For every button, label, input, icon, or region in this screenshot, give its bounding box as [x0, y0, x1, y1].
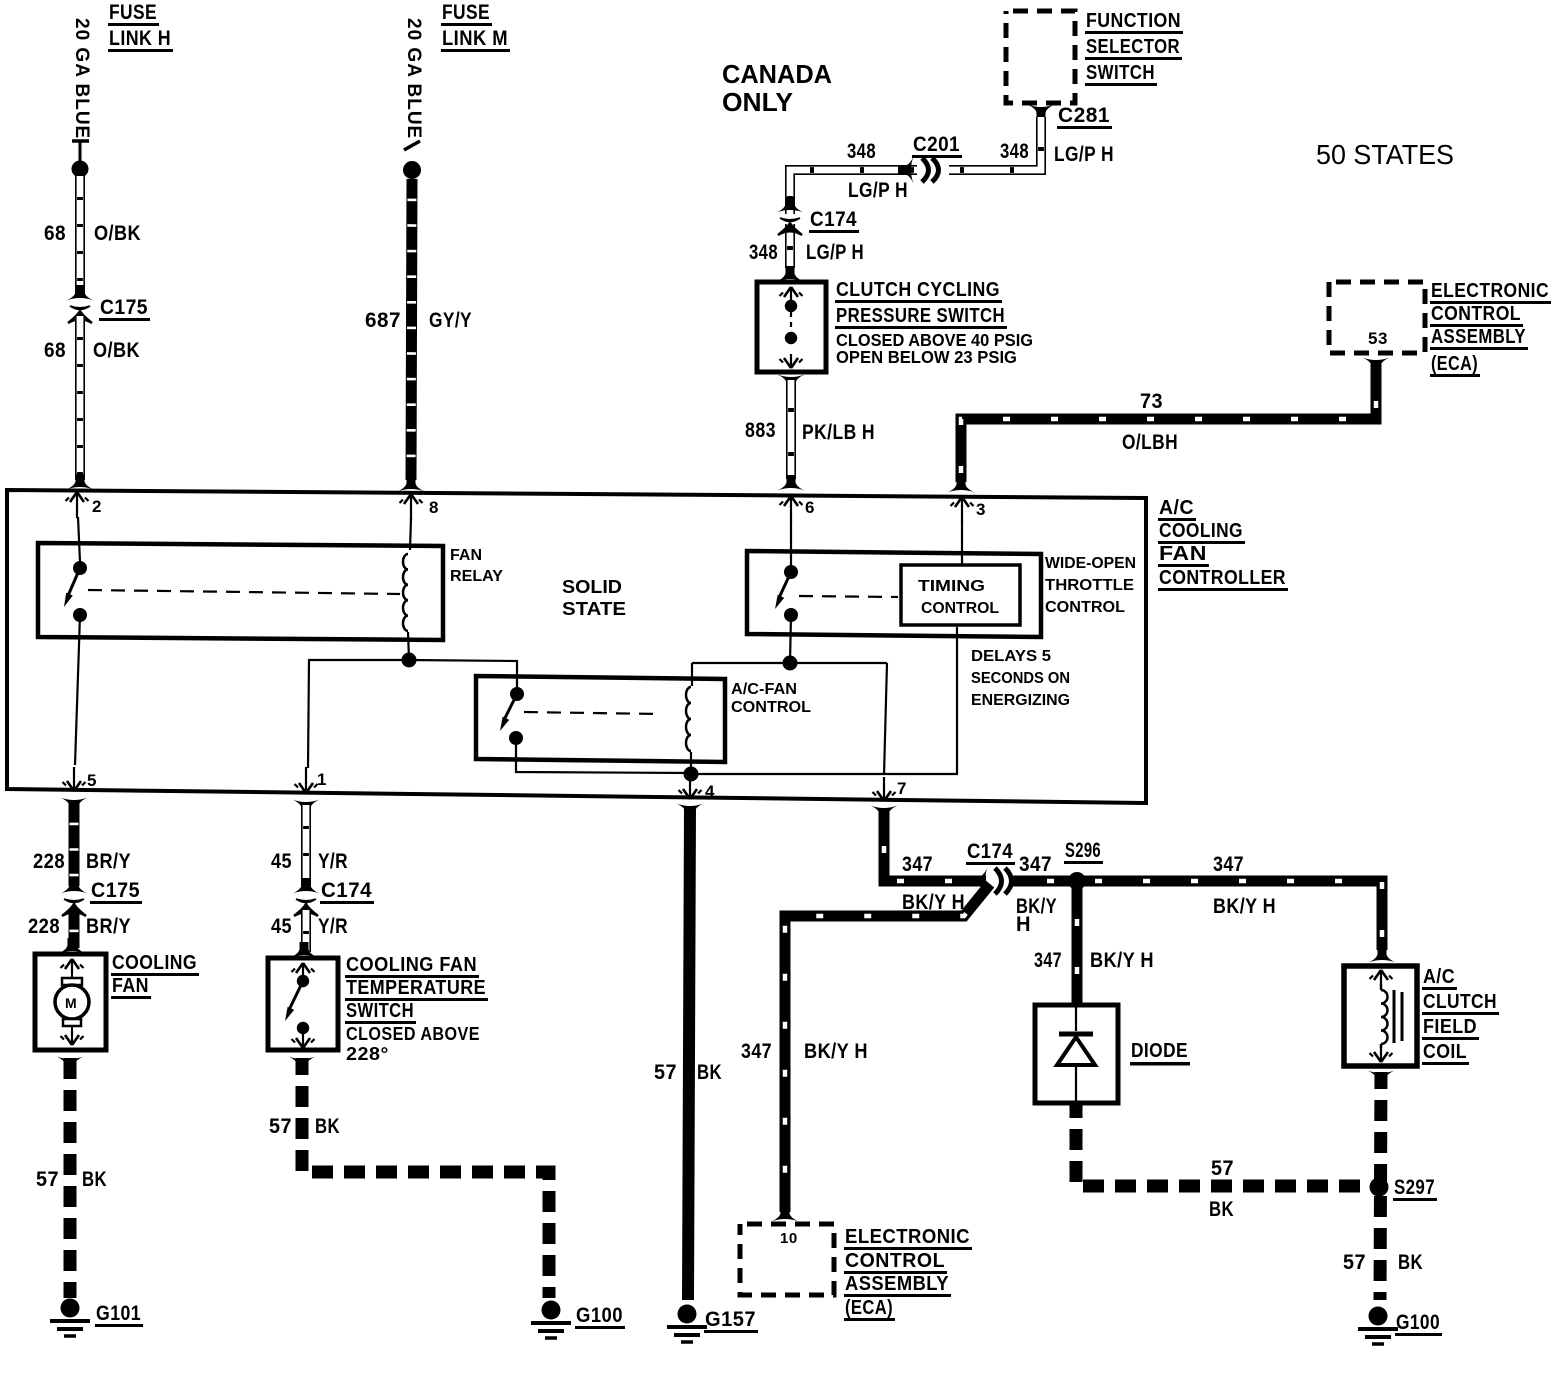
- wire node 4 to timing control: [691, 627, 957, 774]
- timing control label: [918, 578, 999, 617]
- wire 73 O/LBH: [961, 363, 1376, 482]
- A/C clutch field coil box: [1344, 966, 1417, 1066]
- svg-text:RELAY: RELAY: [450, 568, 503, 585]
- label LG/P H (right top): [1054, 143, 1114, 166]
- cooling fan motor: [55, 959, 89, 1045]
- cooling fan temperature switch box: [268, 958, 338, 1050]
- svg-text:ENERGIZING: ENERGIZING: [971, 692, 1070, 709]
- svg-text:57: 57: [36, 1168, 59, 1191]
- svg-text:LG/P H: LG/P H: [848, 179, 908, 202]
- label 348 LG/P H (above pressure switch): [749, 241, 864, 264]
- svg-text:4: 4: [705, 782, 715, 801]
- wire 347 BK/Y H main run: [884, 808, 986, 881]
- ground G100 (left): [531, 1301, 625, 1339]
- wire 228 BR/Y lower: [69, 910, 80, 948]
- svg-text:73: 73: [1140, 390, 1163, 413]
- pin 1: [295, 767, 327, 793]
- pin 5: [63, 615, 97, 791]
- label 57 BK (field coil to G100): [1343, 1251, 1423, 1274]
- svg-text:CONTROL: CONTROL: [921, 600, 999, 617]
- wire node 7 horizontal: [692, 662, 887, 664]
- label 347 BK/Y H (to field coil): [1213, 853, 1276, 918]
- label 57 BK (G157 branch): [654, 1061, 722, 1084]
- connector at controller pin 2: [67, 474, 94, 490]
- svg-text:SOLID: SOLID: [562, 577, 622, 597]
- label 347 (left of C174): [902, 853, 933, 876]
- function selector switch labels: [1085, 10, 1183, 86]
- WOT switch to node 7: [783, 615, 798, 671]
- function selector switch (dashed box): [1006, 11, 1075, 103]
- ECA labels (bottom): [844, 1226, 972, 1321]
- temperature switch contacts: [282, 963, 315, 1048]
- timing control box: [901, 565, 1020, 625]
- label 68 O/BK upper: [44, 222, 141, 245]
- svg-text:C175: C175: [91, 879, 140, 902]
- label SOLID STATE: [562, 577, 626, 619]
- svg-text:SECONDS ON: SECONDS ON: [971, 670, 1070, 687]
- svg-text:COIL: COIL: [1423, 1041, 1467, 1063]
- A/C cooling fan controller labels: [1158, 497, 1288, 591]
- svg-text:FUSE: FUSE: [442, 1, 490, 24]
- svg-text:CLOSED ABOVE: CLOSED ABOVE: [346, 1024, 480, 1044]
- connector below pressure switch: [778, 375, 805, 391]
- fuse link H label: [108, 1, 173, 52]
- note CANADA ONLY: [722, 59, 832, 117]
- svg-text:50 STATES: 50 STATES: [1316, 139, 1454, 170]
- svg-text:O/BK: O/BK: [93, 339, 140, 362]
- WOT dashed link: [799, 596, 898, 597]
- label 228 BR/Y upper: [33, 850, 131, 873]
- pin 10 label: [780, 1230, 798, 1247]
- connector at ECA pin 10: [772, 1206, 799, 1222]
- connector below pin 5: [61, 798, 88, 814]
- svg-text:CLUTCH CYCLING: CLUTCH CYCLING: [836, 279, 1000, 301]
- svg-text:ONLY: ONLY: [722, 87, 793, 117]
- label 347 (right of C174): [1019, 853, 1052, 876]
- fuse link H symbol: [72, 141, 90, 178]
- svg-text:BR/Y: BR/Y: [86, 915, 131, 938]
- A/C-fan control coil: [686, 687, 691, 751]
- label 687 GY/Y: [365, 309, 472, 332]
- label 45 Y/R lower: [271, 915, 348, 938]
- svg-text:57: 57: [1343, 1251, 1366, 1274]
- svg-text:228°: 228°: [346, 1044, 389, 1064]
- svg-text:CONTROLLER: CONTROLLER: [1159, 567, 1286, 589]
- note 50 STATES: [1316, 139, 1454, 170]
- connector C174 (lower): [293, 878, 375, 916]
- svg-text:S297: S297: [1394, 1176, 1435, 1199]
- connector C175 (top): [67, 285, 151, 323]
- svg-text:M: M: [65, 995, 77, 1011]
- svg-text:O/LBH: O/LBH: [1122, 431, 1178, 454]
- label 57 BK (temp switch branch): [269, 1115, 340, 1138]
- wire 57 BK field coil to G100: [1380, 1072, 1381, 1300]
- connector C174 (bottom, horizontal): [966, 840, 1018, 895]
- diode box: [1035, 1005, 1118, 1103]
- svg-text:A/C: A/C: [1159, 497, 1194, 519]
- electronic control assembly ECA (pin 53) dashed box: [1329, 282, 1425, 353]
- svg-text:7: 7: [897, 779, 907, 798]
- wire 348 LG/P H from C281 to C201 to C174: [790, 117, 1041, 268]
- ground G157: [667, 1305, 758, 1343]
- wire 347 to ECA pin 10: [785, 884, 990, 1212]
- svg-text:348: 348: [749, 241, 778, 264]
- svg-text:1: 1: [317, 770, 327, 789]
- A/C-fan control dashed link: [524, 712, 660, 714]
- wire 45 Y/R lower: [301, 910, 311, 952]
- svg-text:LINK H: LINK H: [109, 27, 171, 50]
- svg-text:TIMING: TIMING: [918, 578, 985, 595]
- connector below field coil: [1368, 1071, 1395, 1087]
- svg-text:3: 3: [976, 500, 986, 519]
- electronic control assembly ECA (pin 10) dashed box: [740, 1224, 834, 1295]
- svg-text:STATE: STATE: [562, 599, 626, 619]
- svg-text:GY/Y: GY/Y: [429, 309, 472, 332]
- svg-text:(ECA): (ECA): [845, 1297, 893, 1319]
- svg-text:CONTROL: CONTROL: [845, 1250, 945, 1272]
- svg-text:20 GA BLUE: 20 GA BLUE: [403, 18, 424, 139]
- svg-text:WIDE-OPEN: WIDE-OPEN: [1045, 555, 1136, 572]
- svg-text:BK: BK: [82, 1168, 107, 1191]
- connector below pin 4: [677, 804, 704, 820]
- svg-text:57: 57: [654, 1061, 677, 1084]
- svg-text:CONTROL: CONTROL: [731, 699, 811, 716]
- splice S297: [1370, 1176, 1438, 1201]
- svg-text:A/C: A/C: [1423, 966, 1455, 988]
- label BK/Y H (right of C174): [1016, 895, 1057, 936]
- node: fan relay coil to A/C-fan control: [402, 632, 417, 668]
- svg-text:FAN: FAN: [112, 975, 149, 997]
- wire 347 S296 to diode: [1072, 881, 1083, 1005]
- wire 20 GA BLUE label (fuse link H): [71, 18, 92, 139]
- A/C-fan control label: [731, 681, 811, 716]
- svg-text:FIELD: FIELD: [1423, 1016, 1477, 1038]
- pin 2: [66, 492, 102, 562]
- connector below pin 7: [871, 806, 898, 822]
- svg-text:687: 687: [365, 309, 401, 332]
- wide-open throttle control labels: [1045, 555, 1136, 616]
- connector below ECA 53: [1363, 358, 1390, 374]
- A/C-fan coil top wire: [691, 663, 693, 686]
- svg-text:BR/Y: BR/Y: [86, 850, 131, 873]
- wire 68 O/BK upper segment: [75, 176, 85, 293]
- svg-text:LG/P H: LG/P H: [806, 241, 864, 264]
- svg-text:2: 2: [92, 497, 102, 516]
- svg-text:57: 57: [269, 1115, 292, 1138]
- cooling fan box: [35, 954, 106, 1050]
- svg-text:FUNCTION: FUNCTION: [1086, 10, 1181, 32]
- svg-text:BK: BK: [315, 1115, 340, 1138]
- svg-text:348: 348: [1000, 140, 1029, 163]
- svg-text:228: 228: [28, 915, 60, 938]
- svg-text:347: 347: [1213, 853, 1244, 876]
- svg-text:BK: BK: [1398, 1251, 1423, 1274]
- svg-text:C174: C174: [321, 879, 372, 902]
- svg-text:348: 348: [847, 140, 876, 163]
- ground G100 (right): [1358, 1307, 1442, 1345]
- svg-text:SELECTOR: SELECTOR: [1086, 36, 1180, 58]
- svg-text:53: 53: [1368, 329, 1388, 348]
- svg-text:H: H: [1016, 913, 1031, 936]
- delays note: [971, 648, 1070, 709]
- svg-text:6: 6: [805, 498, 815, 517]
- WOT switch: [772, 565, 798, 622]
- svg-text:G100: G100: [576, 1304, 623, 1327]
- pin 6: [780, 496, 815, 566]
- svg-text:PK/LB H: PK/LB H: [802, 421, 875, 444]
- svg-text:ASSEMBLY: ASSEMBLY: [1431, 326, 1526, 348]
- fuse link M symbol: [403, 141, 421, 179]
- svg-text:Y/R: Y/R: [318, 850, 348, 873]
- wire 228 BR/Y upper: [69, 803, 80, 886]
- label 228 BR/Y lower: [28, 915, 131, 938]
- svg-text:TEMPERATURE: TEMPERATURE: [346, 977, 486, 999]
- temperature switch labels: [345, 954, 488, 1064]
- wire 57 BK to G100 (left): [302, 1058, 549, 1298]
- svg-text:BK/Y H: BK/Y H: [1090, 949, 1154, 972]
- label 57 BK (diode to S297): [1209, 1157, 1234, 1221]
- label BK/Y H (below wire): [902, 891, 965, 914]
- wire 57 BK to G157: [688, 806, 690, 1300]
- svg-text:ELECTRONIC: ELECTRONIC: [1431, 280, 1549, 302]
- wide-open throttle control box: [747, 551, 1041, 637]
- wire 45 Y/R upper: [301, 805, 311, 886]
- svg-text:SWITCH: SWITCH: [1086, 62, 1155, 84]
- label 73 O/LBH: [1122, 390, 1178, 454]
- wire junction to A/C-fan switch: [409, 660, 517, 690]
- svg-text:G100: G100: [1396, 1311, 1440, 1334]
- wire 20 GA BLUE label (fuse link M): [403, 18, 424, 139]
- connector at cooling fan: [59, 938, 86, 954]
- wire C174 to S296 to field coil: [1009, 881, 1382, 950]
- label 347 BK/Y H (ECA branch): [741, 1040, 868, 1063]
- svg-text:CANADA: CANADA: [722, 59, 832, 89]
- svg-text:DIODE: DIODE: [1131, 1040, 1188, 1062]
- svg-text:THROTTLE: THROTTLE: [1045, 577, 1134, 594]
- label LG/P H (below horizontal wire): [848, 179, 908, 202]
- svg-text:BK: BK: [1209, 1198, 1234, 1221]
- connector at controller pin 8: [398, 476, 425, 492]
- svg-text:S296: S296: [1065, 839, 1101, 862]
- svg-text:COOLING: COOLING: [1159, 520, 1243, 542]
- svg-text:347: 347: [1019, 853, 1052, 876]
- svg-text:C281: C281: [1058, 104, 1110, 127]
- A/C cooling fan controller box: [7, 490, 1146, 803]
- label 883 PK/LB H: [745, 419, 875, 444]
- svg-text:57: 57: [1211, 1157, 1234, 1180]
- svg-text:FAN: FAN: [450, 547, 482, 564]
- svg-text:45: 45: [271, 915, 292, 938]
- connector below pin 1: [293, 800, 320, 816]
- svg-text:FAN: FAN: [1159, 543, 1207, 565]
- diode label: [1130, 1040, 1190, 1066]
- connector C281: [1028, 104, 1113, 129]
- svg-text:CONTROL: CONTROL: [1045, 599, 1125, 616]
- label 348 (right of C201): [1000, 140, 1029, 163]
- svg-text:68: 68: [44, 222, 66, 245]
- connector at controller pin 3: [948, 477, 975, 493]
- svg-text:347: 347: [741, 1040, 772, 1063]
- A/C-fan control switch: [497, 687, 524, 745]
- svg-text:BK/Y H: BK/Y H: [1213, 895, 1276, 918]
- svg-text:5: 5: [87, 771, 97, 790]
- splice S296: [1064, 839, 1103, 890]
- clutch cycling pressure switch labels: [835, 279, 1033, 367]
- svg-text:ELECTRONIC: ELECTRONIC: [845, 1226, 970, 1248]
- svg-text:ASSEMBLY: ASSEMBLY: [845, 1273, 949, 1295]
- svg-text:BK/Y H: BK/Y H: [804, 1040, 868, 1063]
- svg-text:Y/R: Y/R: [318, 915, 348, 938]
- svg-text:10: 10: [780, 1230, 798, 1247]
- pin 7: [873, 663, 907, 801]
- pin 8: [400, 494, 439, 550]
- svg-text:CLUTCH: CLUTCH: [1423, 991, 1497, 1013]
- svg-text:228: 228: [33, 850, 65, 873]
- svg-text:COOLING FAN: COOLING FAN: [346, 954, 477, 976]
- ECA labels (top right): [1430, 280, 1551, 377]
- connector at temperature switch: [291, 942, 318, 958]
- connector below temperature switch: [289, 1057, 316, 1073]
- svg-text:347: 347: [1034, 949, 1062, 972]
- svg-text:A/C-FAN: A/C-FAN: [731, 681, 797, 698]
- fan relay dashed link: [88, 590, 400, 594]
- svg-text:45: 45: [271, 850, 292, 873]
- wire 57 BK diode to S297: [1076, 1103, 1370, 1186]
- A/C clutch field coil labels: [1422, 966, 1499, 1065]
- svg-text:LINK M: LINK M: [442, 27, 508, 50]
- ground G101: [50, 1299, 143, 1337]
- svg-text:C174: C174: [967, 840, 1013, 863]
- fuse link M label: [441, 1, 510, 52]
- connector C174 (upper): [777, 197, 860, 235]
- pin 53 label: [1368, 329, 1388, 348]
- svg-text:G157: G157: [705, 1308, 756, 1331]
- svg-text:883: 883: [745, 419, 776, 442]
- svg-text:PRESSURE SWITCH: PRESSURE SWITCH: [836, 305, 1005, 327]
- A/C clutch field coil element: [1370, 970, 1403, 1062]
- connector C201: [898, 133, 962, 184]
- svg-text:SWITCH: SWITCH: [346, 1000, 414, 1022]
- pin 4: [679, 774, 716, 801]
- fan relay label: [450, 547, 503, 585]
- connector at clutch cycling pressure switch: [777, 266, 804, 282]
- label 68 O/BK lower: [44, 339, 140, 362]
- svg-text:68: 68: [44, 339, 66, 362]
- svg-text:C175: C175: [100, 296, 148, 319]
- label 348 (left of C201): [847, 140, 876, 163]
- fan relay box: [38, 543, 443, 640]
- svg-text:347: 347: [902, 853, 933, 876]
- cooling fan labels: [111, 952, 199, 999]
- svg-text:LG/P H: LG/P H: [1054, 143, 1114, 166]
- connector at controller pin 6: [778, 475, 805, 491]
- svg-text:20 GA BLUE: 20 GA BLUE: [71, 18, 92, 139]
- connector below cooling fan: [57, 1057, 84, 1073]
- svg-text:C201: C201: [913, 133, 960, 156]
- diode D1: [1057, 1007, 1095, 1101]
- svg-text:8: 8: [429, 498, 439, 517]
- wire 68 O/BK lower segment: [75, 316, 85, 480]
- fan relay coil: [403, 554, 408, 631]
- pin 3: [951, 497, 986, 565]
- wire 687 GY/Y: [411, 179, 412, 480]
- fan relay switch: [61, 561, 87, 622]
- wire to pin 1: [308, 660, 409, 768]
- wire 57 BK to G101: [64, 1058, 77, 1298]
- svg-text:DELAYS 5: DELAYS 5: [971, 648, 1051, 665]
- svg-text:(ECA): (ECA): [1431, 353, 1478, 375]
- svg-text:C174: C174: [810, 208, 857, 231]
- label 57 BK (G101 branch): [36, 1168, 107, 1191]
- node 4 junction: [684, 752, 699, 782]
- connector at A/C clutch field coil: [1369, 947, 1396, 963]
- wire 883 PK/LB H: [786, 380, 796, 479]
- label 45 Y/R upper: [271, 850, 348, 873]
- svg-text:FUSE: FUSE: [109, 1, 157, 24]
- svg-text:G101: G101: [96, 1302, 141, 1325]
- label 347 BK/Y H (diode branch): [1034, 949, 1154, 972]
- pressure switch contacts: [780, 287, 803, 368]
- svg-text:COOLING: COOLING: [112, 952, 197, 974]
- connector C175 (lower): [61, 878, 143, 916]
- wire A/C-fan switch to node 4: [516, 738, 691, 773]
- A/C-fan control box: [476, 676, 725, 762]
- svg-text:O/BK: O/BK: [94, 222, 141, 245]
- svg-text:OPEN BELOW 23 PSIG: OPEN BELOW 23 PSIG: [836, 347, 1017, 367]
- svg-text:BK: BK: [697, 1061, 722, 1084]
- svg-text:CONTROL: CONTROL: [1431, 303, 1521, 325]
- clutch cycling pressure switch box: [757, 282, 826, 372]
